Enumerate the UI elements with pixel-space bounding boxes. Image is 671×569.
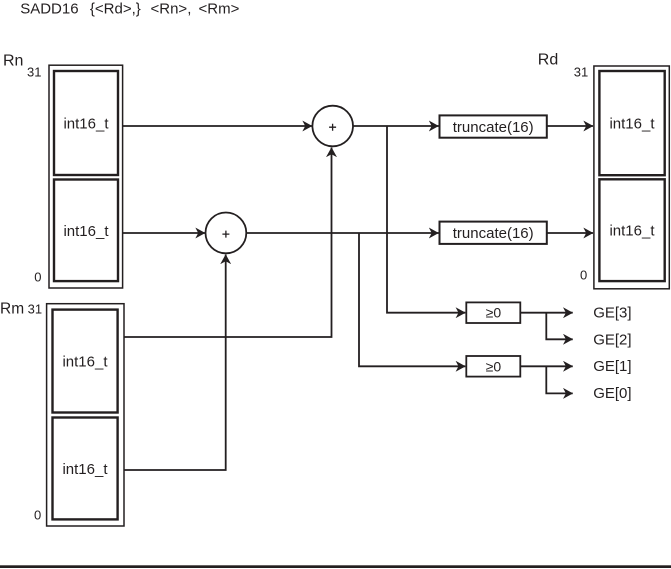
svg-text:≥0: ≥0	[486, 358, 502, 374]
wire Rm high up into upper adder	[124, 148, 332, 338]
svg-text:int16_t: int16_t	[63, 223, 109, 240]
svg-text:{<Rd>,}: {<Rd>,}	[90, 0, 141, 17]
wire truncate upper to Rd high	[547, 125, 593, 127]
block ge detect lower (&#8805;0)	[466, 356, 520, 377]
wire Rm low up into lower adder	[124, 255, 226, 471]
svg-text:Rn: Rn	[3, 53, 23, 70]
svg-text:≥0: ≥0	[486, 304, 502, 320]
svg-text:int16_t: int16_t	[62, 461, 108, 478]
bottom rule	[0, 565, 671, 568]
block truncate(16) upper	[440, 115, 547, 137]
svg-text:Rm: Rm	[0, 300, 24, 317]
svg-text:<Rn>,: <Rn>,	[151, 0, 192, 17]
svg-text:31: 31	[574, 64, 588, 79]
svg-text:int16_t: int16_t	[63, 116, 109, 133]
register Rn low halfword box	[54, 180, 118, 282]
wire branch lower sum down to ge detect lower	[359, 233, 465, 366]
register Rm high halfword box	[53, 310, 118, 413]
register Rm low halfword box	[53, 418, 118, 520]
svg-text:int16_t: int16_t	[609, 116, 655, 133]
register Rm outer box	[47, 304, 124, 526]
svg-text:SADD16: SADD16	[20, 0, 78, 17]
wire branch upper sum down to ge detect upper	[387, 126, 465, 313]
svg-text:31: 31	[27, 64, 41, 79]
wire branch to GE[0]	[546, 366, 572, 393]
wire ge upper to GE[3]	[521, 312, 573, 314]
title SADD16 instruction syntax	[20, 0, 239, 17]
svg-text:31: 31	[28, 302, 42, 317]
block ge detect upper (&#8805;0)	[466, 302, 520, 323]
wire Rn high to upper adder	[123, 125, 312, 127]
svg-text:GE[0]: GE[0]	[593, 385, 631, 402]
register Rn outer box	[49, 65, 123, 288]
svg-text:0: 0	[34, 270, 41, 285]
svg-text:truncate(16): truncate(16)	[453, 119, 534, 136]
svg-text:GE[3]: GE[3]	[593, 305, 631, 322]
register Rd high halfword box	[599, 71, 664, 175]
wire lower adder to truncate(16) lower	[247, 232, 439, 234]
wire ge lower to GE[1]	[521, 365, 573, 367]
register Rd low halfword box	[599, 179, 664, 281]
svg-text:0: 0	[580, 268, 587, 283]
wire branch to GE[2]	[546, 313, 572, 340]
svg-text:int16_t: int16_t	[609, 223, 655, 240]
svg-text:<Rm>: <Rm>	[199, 0, 240, 17]
svg-text:truncate(16): truncate(16)	[453, 225, 534, 242]
svg-text:0: 0	[34, 508, 41, 523]
svg-text:Rd: Rd	[538, 51, 558, 68]
register Rn high halfword box	[54, 71, 118, 175]
adder circle lower	[206, 213, 247, 254]
wire truncate lower to Rd low	[547, 232, 593, 234]
svg-text:GE[2]: GE[2]	[593, 331, 631, 348]
register Rd outer box	[594, 66, 669, 289]
wire Rn low to lower adder	[123, 232, 205, 234]
block truncate(16) lower	[440, 222, 547, 244]
svg-text:int16_t: int16_t	[62, 354, 108, 371]
wire upper adder to truncate(16) upper	[353, 125, 439, 127]
adder circle upper	[312, 106, 353, 147]
svg-text:GE[1]: GE[1]	[593, 358, 631, 375]
